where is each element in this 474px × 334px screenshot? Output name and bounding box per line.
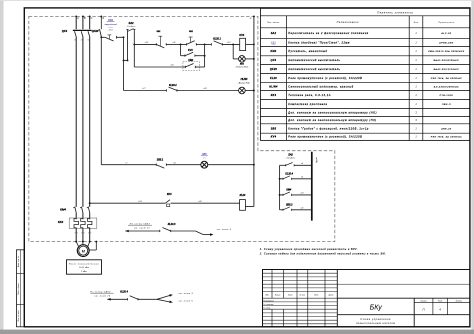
wire PE lead: [95, 242, 97, 250]
node phase A at enclosure boundary: [75, 241, 77, 243]
svg-text:повысительным насосом: повысительным насосом: [356, 322, 396, 325]
svg-text:Переключатель на 2 фиксированн: Переключатель на 2 фиксированных положен…: [288, 32, 368, 35]
svg-text:На схему САК2: На схему САК2: [90, 290, 111, 293]
svg-text:ВА47-29/3Р/25А/С: ВА47-29/3Р/25А/С: [434, 59, 460, 62]
svg-text:QF4: QF4: [62, 29, 68, 33]
svg-text:ВА47-29/1Р/16А/С: ВА47-29/1Р/16А/С: [434, 68, 460, 71]
wire phase B vertical: [82, 37, 84, 207]
dashed panel enclosure boundary: [29, 16, 335, 241]
wire branch right vertical: [204, 44, 206, 67]
wire KL20.4 remote to terminal strip: [292, 178, 312, 180]
node N bus entry: [253, 15, 255, 17]
wire main row segment 1: [134, 43, 156, 45]
svg-text:Поз. обозн.: Поз. обозн.: [267, 22, 280, 24]
wire phase B upper segment: [82, 16, 84, 29]
wire SB5 row: [101, 164, 156, 166]
svg-text:AD-22DS/230В/АС: AD-22DS/230В/АС: [433, 86, 459, 89]
svg-text:KK4: KK4: [58, 220, 64, 224]
wire SA2 left terminal down: [127, 31, 129, 60]
svg-text:см. лист 3: см. лист 3: [179, 293, 194, 295]
svg-text:Примечание: Примечание: [438, 22, 455, 24]
wire remote common vertical: [279, 165, 281, 210]
svg-text:KL20: KL20: [270, 77, 277, 80]
wire feed vertical to alarm row: [123, 37, 125, 90]
wire KM4 branch from SA2: [134, 66, 183, 68]
lamp SB5 neon: [201, 161, 208, 168]
svg-text:KV4: KV4: [271, 136, 277, 139]
wire SB5 row mid: [166, 164, 201, 166]
svg-text:с11: с11: [172, 42, 175, 44]
wire KV4 branch left: [180, 44, 182, 55]
svg-text:Лист: Лист: [437, 301, 443, 303]
breaker QF20: [100, 16, 102, 29]
svg-text:HL/N4: HL/N4: [269, 86, 278, 89]
motor label box: [67, 260, 102, 274]
wire SB5 row to N bus: [208, 164, 254, 166]
wire phases below contactor: [75, 213, 77, 219]
svg-text:Лист: Лист: [287, 295, 293, 297]
svg-text:Х1: Х1: [86, 39, 89, 41]
svg-text:1. Схему управления приводами: 1. Схему управления приводами насосной р…: [260, 248, 358, 251]
wire KV4 branch right: [195, 55, 205, 57]
margin stamp column: [17, 250, 25, 327]
button SB1 emergency stop contact: [101, 36, 105, 38]
wire KM4 branch right: [195, 66, 204, 68]
svg-text:KV4: KV4: [188, 49, 193, 52]
svg-text:Схема управления: Схема управления: [360, 318, 391, 321]
node N entry for control feed: [100, 15, 102, 17]
wire main row segment 4: [222, 43, 239, 45]
svg-text:Разработал: Разработал: [263, 300, 273, 302]
wire SB1 to junction: [117, 36, 124, 38]
svg-text:KL20.4: KL20.4: [285, 172, 293, 175]
wire coil KV4 to N bus: [246, 43, 254, 45]
svg-text:неон: неон: [202, 157, 206, 159]
svg-text:Листов: Листов: [455, 301, 462, 303]
wire bottom row left: [107, 298, 127, 300]
wire alarm row: [124, 90, 167, 92]
wire KK4 row right: [171, 202, 240, 204]
svg-text:SB5.2: SB5.2: [286, 203, 293, 206]
svg-text:SB1: SB1: [240, 64, 244, 66]
wire feed vertical to SB5 row: [100, 37, 102, 164]
wire phase A vertical: [75, 37, 77, 207]
svg-text:ПКИ-П: ПКИ-П: [442, 104, 451, 106]
wire bottom row right with fork: [138, 298, 157, 300]
svg-text:Реле промежуточное (с розеткой: Реле промежуточное (с розеткой), 3А/220В: [288, 77, 362, 80]
node phase B at enclosure boundary: [82, 241, 84, 243]
wire jog joining SA2 to feed: [124, 59, 128, 61]
svg-text:с11: с11: [301, 207, 304, 209]
svg-text:Х1: Х1: [73, 39, 76, 41]
svg-text:С: С: [91, 17, 93, 20]
svg-text:KK4: KK4: [271, 94, 277, 97]
wire main row segment 3: [181, 43, 187, 45]
page right edge shading: [471, 0, 474, 334]
svg-text:22мм: 22мм: [108, 30, 114, 32]
breaker QF4: [75, 31, 77, 37]
svg-text:см. лист 3: см. лист 3: [217, 229, 232, 231]
svg-text:Подп. и дата: Подп. и дата: [17, 283, 20, 294]
motor M1: [77, 245, 89, 257]
svg-text:Х1: Х1: [80, 39, 83, 41]
svg-text:2. Силовые кабели для подключе: 2. Силовые кабели для подключения двигат…: [259, 253, 386, 256]
svg-text:Доп. контакт на светосигнальну: Доп. контакт на светосигнальную аппарату…: [287, 119, 376, 122]
svg-text:KL20.2: KL20.2: [169, 84, 177, 87]
node B phase entry: [82, 15, 84, 17]
svg-text:«Авария HL4»: «Авария HL4»: [238, 82, 250, 85]
svg-text:KL20.1: KL20.1: [213, 38, 221, 41]
svg-text:см. лист 5: см. лист 5: [179, 301, 194, 303]
svg-text:Подп.: Подп.: [314, 294, 319, 297]
wire phase C upper segment: [89, 16, 91, 29]
svg-text:Тепловое реле, 9.0-13,1А: Тепловое реле, 9.0-13,1А: [288, 94, 331, 97]
wire KM4 remote to terminal strip: [292, 194, 312, 196]
svg-text:KK4: KK4: [167, 193, 172, 196]
wire SA2 right terminal down: [133, 31, 135, 67]
svg-text:HL/N4: HL/N4: [241, 78, 248, 81]
svg-text:QF20: QF20: [270, 68, 278, 71]
title block outline: [263, 270, 471, 327]
svg-text:KM4: KM4: [286, 189, 292, 192]
svg-text:SA2: SA2: [271, 32, 277, 35]
svg-text:QF4: QF4: [271, 59, 277, 62]
svg-text:КМН-22510 25А 220В/АС3: КМН-22510 25А 220В/АС3: [428, 50, 465, 53]
svg-text:SB1: SB1: [189, 31, 193, 33]
svg-text:см. лист 11: см. лист 11: [134, 228, 150, 230]
wire phases to motor terminals: [75, 228, 77, 242]
lamp SB1 Работа HL4: [239, 56, 246, 63]
svg-text:Перечень элементов: Перечень элементов: [377, 10, 413, 14]
wire coil KL20 to N bus: [245, 206, 254, 208]
svg-text:Инв. № подл.: Инв. № подл.: [17, 310, 20, 322]
wire phase C vertical: [89, 37, 91, 207]
svg-text:«Укл-Авт»: «Укл-Авт»: [126, 25, 135, 28]
svg-text:Дата: Дата: [328, 295, 334, 297]
node phase C at enclosure boundary: [89, 241, 91, 243]
svg-text:ALC-22: ALC-22: [440, 32, 451, 35]
wire SA2 remote to terminal strip: [294, 164, 311, 166]
svg-text:KL20: KL20: [240, 194, 246, 197]
title block right part lines: [337, 283, 470, 285]
contact KM4 remote: [279, 194, 281, 196]
svg-text:РЭК 78/4; 3А 220В/АС: РЭК 78/4; 3А 220В/АС: [431, 136, 462, 139]
node C phase entry: [89, 15, 91, 17]
svg-text:APBB-22N: APBB-22N: [438, 41, 453, 44]
svg-text:KM4: KM4: [188, 59, 193, 62]
terminal strip XT: [311, 152, 313, 221]
svg-text:SB5.1: SB5.1: [157, 158, 164, 161]
svg-text:№ док: № док: [300, 294, 305, 297]
svg-text:Гл. спец.: Гл. спец.: [263, 308, 271, 310]
page top edge shading: [0, 0, 474, 2]
wire lamp HL/N4 to N bus: [245, 90, 254, 92]
svg-text:SA2: SA2: [128, 21, 134, 25]
svg-text:Р=1,1 кВт: Р=1,1 кВт: [79, 267, 89, 269]
svg-text:Кол: Кол: [414, 22, 419, 24]
node PE at enclosure boundary: [95, 241, 97, 243]
svg-text:РЭК 78/4; 3А 220В/АС: РЭК 78/4; 3А 220В/АС: [431, 77, 462, 80]
svg-text:Пускатель, магнитный: Пускатель, магнитный: [288, 50, 327, 53]
svg-text:Кол.уч: Кол.уч: [275, 295, 280, 297]
node main row tap: [133, 43, 135, 45]
wire phase A upper segment: [75, 16, 77, 29]
svg-text:см. лист 10: см. лист 10: [94, 296, 110, 298]
svg-text:Доп. контакт на светосигнальну: Доп. контакт на светосигнальную аппарату…: [287, 111, 377, 114]
node A phase entry: [75, 15, 77, 17]
svg-text:Компактная приставка: Компактная приставка: [288, 103, 327, 106]
node L junction after QF20: [100, 36, 102, 38]
svg-text:На схему САК2: На схему САК2: [130, 222, 151, 225]
svg-text:на БКу: на БКу: [315, 157, 317, 163]
wire SB5.2 remote to terminal strip: [292, 209, 312, 211]
dashed outline around KM4 aux contact: [183, 62, 199, 71]
wire KL20.3 row right with jog: [171, 230, 196, 232]
svg-text:«Работа HL4»: «Работа HL4»: [235, 66, 248, 69]
svg-text:KM4: KM4: [271, 50, 277, 53]
wire KL20.3 row left: [125, 230, 160, 232]
svg-text:Светосигнальный индикатор, кра: Светосигнальный индикатор, красный: [288, 86, 353, 89]
svg-text:Автоматический выключатель: Автоматический выключатель: [287, 59, 340, 62]
svg-text:«Укл-Авт»: «Укл-Авт»: [286, 157, 296, 160]
wire N bus: [253, 16, 255, 206]
svg-text:Насос повысительный: Насос повысительный: [69, 262, 100, 265]
svg-text:SA2: SA2: [288, 154, 293, 157]
wire run lamp branch: [232, 44, 234, 59]
page bottom shadow: [0, 330, 474, 334]
svg-text:Кнопка (двойная) "Пуск/Стоп",: Кнопка (двойная) "Пуск/Стоп", 22мм: [288, 41, 350, 44]
svg-text:Кнопка "Грибок" с фиксацией, н: Кнопка "Грибок" с фиксацией, неон/220В, …: [288, 127, 369, 130]
svg-text:РТИ-1316: РТИ-1316: [440, 95, 454, 97]
svg-text:KL20.4: KL20.4: [120, 290, 128, 293]
svg-text:Реле промежуточное (с розеткой: Реле промежуточное (с розеткой), 3А/220В: [288, 136, 362, 139]
parts list table grid: [261, 8, 471, 140]
svg-text:БКу: БКу: [370, 305, 383, 312]
wire KK4 row left: [90, 202, 166, 204]
svg-text:Взам. инв. №: Взам. инв. №: [17, 256, 20, 267]
svg-text:Наименование: Наименование: [337, 21, 360, 24]
svg-text:KV4: KV4: [239, 33, 244, 37]
svg-text:1 кВт: 1 кВт: [81, 271, 87, 273]
svg-text:Автоматический выключатель: Автоматический выключатель: [287, 68, 340, 71]
wire main row segment 2: [166, 43, 180, 45]
contact KL20.4 remote: [279, 178, 281, 180]
wire alarm row right: [177, 90, 239, 92]
svg-text:Гл. инженер: Гл. инженер: [263, 304, 273, 306]
svg-text:Стадия: Стадия: [420, 300, 426, 303]
node tap on phase C: [89, 202, 91, 204]
page left edge shading: [0, 0, 4, 334]
svg-text:KM4: KM4: [60, 208, 66, 212]
svg-text:SB1: SB1: [157, 31, 161, 33]
title block left grid: [263, 272, 338, 274]
svg-text:KL20.3: KL20.3: [168, 223, 176, 226]
wire motor leads: [76, 242, 78, 247]
svg-text:ANE-22: ANE-22: [440, 127, 452, 130]
wire lamp to N bus: [245, 58, 254, 60]
svg-text:SB5: SB5: [271, 127, 277, 130]
svg-text:аварийный: аварийный: [105, 23, 118, 26]
svg-text:QF20: QF20: [92, 29, 99, 33]
svg-text:N: N: [102, 17, 104, 20]
